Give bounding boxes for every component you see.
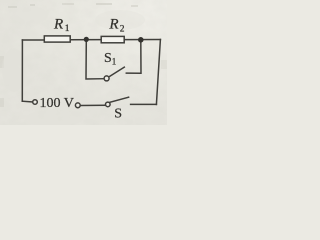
svg-text:2: 2 bbox=[120, 25, 125, 35]
svg-text:1: 1 bbox=[65, 24, 70, 34]
svg-text:R: R bbox=[108, 17, 118, 33]
svg-text:S: S bbox=[114, 106, 122, 121]
svg-text:R: R bbox=[53, 17, 63, 33]
svg-text:100 V: 100 V bbox=[40, 96, 74, 111]
svg-text:S: S bbox=[104, 51, 112, 66]
svg-text:1: 1 bbox=[112, 57, 117, 67]
